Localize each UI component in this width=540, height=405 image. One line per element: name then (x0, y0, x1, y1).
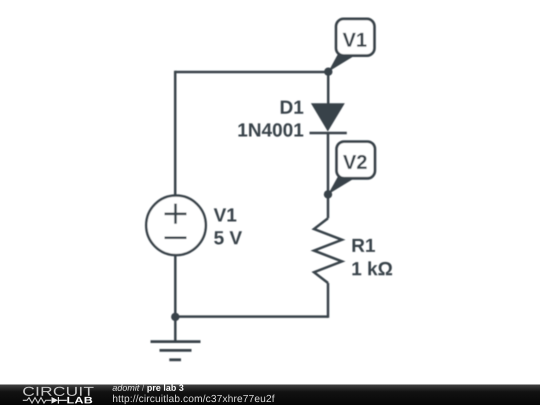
wire top horizontal (175, 71, 328, 74)
label 1N4001 (238, 123, 303, 136)
node label callout V1 (328, 19, 374, 72)
footer author/title text (113, 384, 140, 391)
node junction net V2 (324, 190, 332, 198)
resistor R1 (314, 218, 342, 283)
node junction net V1 (324, 68, 332, 76)
wire left vertical upper (174, 71, 177, 196)
label R1 (352, 239, 374, 252)
footer url text (113, 395, 275, 405)
wire bottom horizontal (174, 315, 328, 318)
wire node V2 to resistor top (327, 193, 330, 218)
wire node V1 to diode anode (327, 71, 330, 105)
label D1 (281, 101, 303, 114)
voltage source V1 (146, 196, 206, 256)
diode D1 (311, 103, 345, 131)
wire resistor bottom to corner (327, 283, 330, 318)
node junction ground net (171, 313, 179, 321)
logo resistor squiggle (23, 398, 51, 403)
node label callout V2 (328, 142, 375, 195)
footer bar (0, 385, 540, 405)
CircuitLab logo wordmark CIRCUIT (23, 387, 93, 396)
label 5 V (214, 231, 242, 244)
logo wordmark LAB (67, 397, 92, 404)
ground (151, 317, 201, 360)
wire diode cathode to node V2 (327, 133, 330, 196)
wire left vertical lower (174, 255, 177, 318)
logo diode glyph (52, 397, 59, 404)
label 1 kOhm (352, 261, 392, 275)
label V1 (214, 208, 237, 221)
